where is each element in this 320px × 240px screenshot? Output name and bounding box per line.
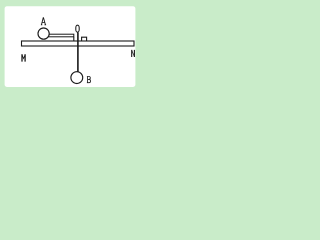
rod from ball A to pivot (48, 34, 74, 41)
label B (87, 77, 91, 83)
label A (41, 17, 46, 24)
white panel (5, 6, 136, 87)
label O (76, 25, 79, 32)
label M (22, 54, 25, 61)
bracket right of pivot (82, 37, 87, 41)
ball B (71, 72, 83, 84)
label N (132, 50, 135, 57)
background (0, 0, 141, 91)
ball A (38, 28, 49, 39)
beam MN (22, 41, 135, 46)
pivot axle O (77, 33, 79, 73)
